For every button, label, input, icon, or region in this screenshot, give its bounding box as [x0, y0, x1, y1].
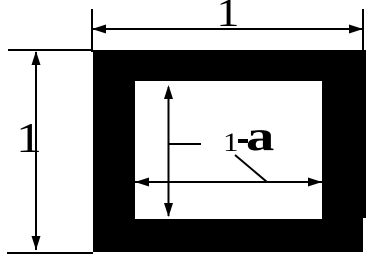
svg-text:1: 1 [216, 0, 239, 35]
svg-text:1: 1 [223, 128, 239, 157]
svg-text:a: a [246, 113, 274, 159]
svg-text:1: 1 [16, 116, 42, 162]
